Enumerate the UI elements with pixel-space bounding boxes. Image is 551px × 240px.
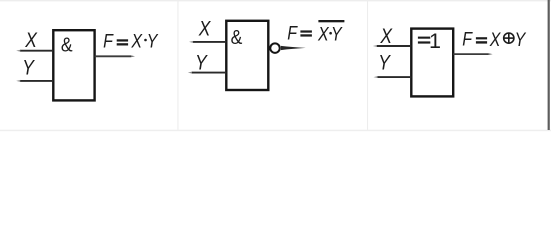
XOR gate U3 body — [411, 29, 453, 97]
svg-text:X: X — [24, 28, 37, 52]
svg-text:Y: Y — [378, 51, 391, 75]
svg-text:X: X — [317, 23, 330, 45]
wire: input X to U2 — [189, 41, 194, 43]
svg-text:&: & — [61, 34, 73, 57]
wire: input Y to U2 — [188, 72, 193, 74]
svg-text:Y: Y — [331, 23, 343, 45]
svg-text:Y: Y — [22, 56, 35, 80]
wire: input Y to U1 — [16, 80, 21, 82]
wire: U3 output F — [453, 53, 489, 55]
svg-text:&: & — [231, 27, 243, 50]
AND gate U1 body — [53, 30, 94, 100]
equation F = X⊕Y (U3 output) — [462, 28, 526, 50]
U3 "=1" function label — [418, 29, 441, 53]
svg-text:F: F — [287, 22, 298, 44]
svg-text:X: X — [131, 30, 144, 52]
svg-text:X: X — [198, 17, 211, 41]
svg-text:X: X — [489, 28, 502, 50]
wire: U2 output F (tapered) — [281, 46, 306, 50]
wire: input Y to U3 — [374, 76, 379, 78]
wire: input X to U1 — [16, 50, 21, 52]
svg-text:Y: Y — [195, 51, 208, 75]
svg-text:F: F — [462, 28, 473, 50]
svg-text:Y: Y — [515, 28, 527, 50]
equation F = overline(X·Y) (U2 output) — [287, 20, 344, 45]
equation F = X·Y (U1 output) — [103, 30, 158, 52]
wire: input X to U3 — [373, 45, 378, 47]
wire: U1 output F — [95, 55, 131, 57]
NAND gate U2 body — [226, 21, 268, 90]
svg-text:F: F — [103, 30, 114, 52]
svg-text:Y: Y — [147, 30, 159, 52]
inversion bubble on U2 output — [270, 43, 280, 53]
svg-text:1: 1 — [429, 29, 441, 53]
